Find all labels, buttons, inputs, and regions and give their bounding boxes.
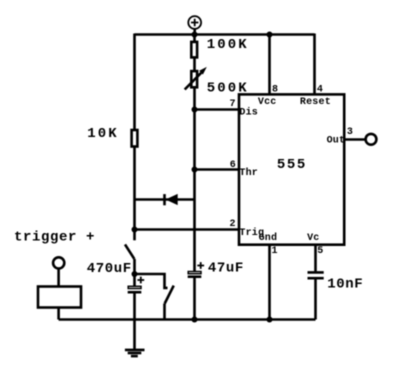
- node bottom pin1 junction: [267, 317, 273, 323]
- output terminal: [366, 134, 377, 145]
- power supply + terminal: [188, 16, 201, 34]
- node bottom mid junction: [192, 317, 198, 323]
- switch S2: [165, 286, 174, 320]
- wire top rail: [135, 33, 315, 36]
- svg-text:5: 5: [317, 246, 323, 257]
- trigger input terminal: [53, 257, 64, 286]
- svg-text:Vc: Vc: [307, 233, 319, 244]
- potentiometer 500K: [185, 67, 207, 90]
- svg-text:3: 3: [347, 127, 353, 138]
- node trig junction: [132, 227, 138, 233]
- svg-text:100K: 100K: [207, 37, 249, 53]
- resistor 100K: [191, 42, 197, 58]
- svg-text:8: 8: [272, 85, 278, 96]
- resistor 10K: [132, 130, 138, 147]
- svg-text:trigger +: trigger +: [14, 230, 95, 246]
- svg-text:2: 2: [230, 219, 236, 230]
- svg-text:555: 555: [277, 157, 307, 173]
- svg-text:Vcc: Vcc: [258, 97, 277, 108]
- wire pin6 (Thr): [195, 168, 240, 171]
- svg-text:4: 4: [317, 85, 323, 96]
- wire trigger box to rail: [57, 308, 60, 320]
- svg-text:470uF: 470uF: [87, 261, 132, 277]
- wire bottom rail: [59, 318, 316, 321]
- wire 100K top stub: [193, 35, 196, 42]
- op-amp U1 555 body: [239, 94, 344, 244]
- trigger source box: [38, 287, 81, 308]
- wire between resistors: [193, 58, 196, 70]
- svg-text:10nF: 10nF: [327, 276, 363, 292]
- capacitor 10nF: [308, 272, 324, 319]
- wire left branch lower: [133, 148, 136, 230]
- wire pin5 drop: [314, 245, 317, 272]
- wire left branch upper: [133, 34, 136, 130]
- wire pin3 (Out): [344, 138, 365, 141]
- capacitor 470uF: [128, 274, 145, 350]
- svg-text:Dis: Dis: [239, 107, 258, 119]
- ground: [125, 350, 145, 356]
- svg-text:10K: 10K: [87, 126, 119, 142]
- capacitor 47uF: [188, 262, 204, 319]
- node pin7 junction: [192, 107, 198, 113]
- diode D1: [135, 194, 195, 205]
- svg-text:7: 7: [230, 99, 236, 110]
- wire pin4 drop: [313, 34, 316, 95]
- svg-text:6: 6: [230, 160, 236, 171]
- svg-text:Reset: Reset: [300, 97, 331, 108]
- wire mid branch: [193, 110, 196, 170]
- wire pin7 (Dis): [195, 108, 240, 111]
- wire 500K to pin7: [193, 88, 196, 109]
- svg-text:Gnd: Gnd: [259, 232, 278, 244]
- switch S1: [125, 230, 135, 275]
- wire mid branch to cap: [193, 170, 196, 272]
- node 470uF junction: [132, 271, 138, 277]
- wire pin8 drop: [268, 35, 271, 95]
- node top-mid junction: [192, 32, 198, 38]
- svg-text:Out: Out: [327, 135, 346, 146]
- wire pin1 drop: [268, 245, 271, 320]
- node top-right junction: [267, 32, 273, 38]
- svg-text:500K: 500K: [207, 80, 249, 96]
- svg-text:Thr: Thr: [239, 167, 258, 179]
- wire pin2 (Trig): [135, 228, 240, 231]
- node pin6 junction: [192, 167, 198, 173]
- wire to switch S2: [135, 274, 168, 288]
- svg-text:47uF: 47uF: [208, 261, 244, 277]
- svg-text:1: 1: [272, 246, 278, 257]
